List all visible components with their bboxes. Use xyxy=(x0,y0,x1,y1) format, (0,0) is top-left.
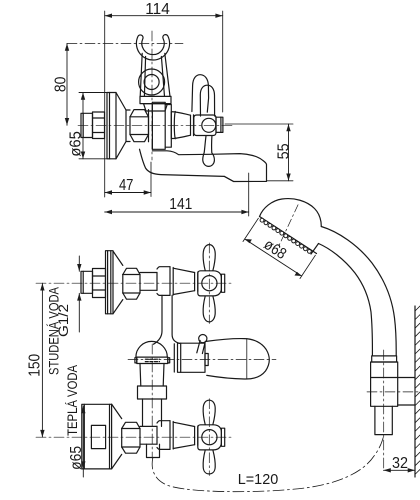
mixer dome xyxy=(136,341,167,357)
escutcheon disc (front lower) xyxy=(82,404,112,469)
bonnet ring (top view) xyxy=(191,115,194,136)
svg-text:TEPLÁ VODA: TEPLÁ VODA xyxy=(65,365,80,436)
head centerline xyxy=(278,202,298,250)
spout egg end seam xyxy=(246,339,248,379)
hex nut (top view) xyxy=(130,110,149,142)
handle upper blade A (top view) xyxy=(192,75,209,113)
dim 141 xyxy=(105,173,249,216)
handle down arm (front upper) xyxy=(203,296,215,322)
hose collar at bracket xyxy=(372,356,397,362)
shower grip and hose outer edge xyxy=(321,227,396,356)
dim o68 ext lines xyxy=(243,218,315,278)
right extension line of 114 xyxy=(222,11,224,112)
escutcheon cone (front upper) xyxy=(113,251,123,314)
valve body (top view) xyxy=(149,102,172,149)
dim 47 xyxy=(105,162,151,197)
cradle mount xyxy=(144,104,168,111)
shower head / grip notch xyxy=(311,244,319,255)
cradle vertical centerline xyxy=(151,31,153,160)
union nut (top view) xyxy=(93,112,105,139)
mixer vertical centerline xyxy=(151,344,153,458)
flange plate xyxy=(135,357,170,363)
bracket pipe xyxy=(375,406,392,434)
spout axis centerline xyxy=(128,358,276,360)
dim 55 xyxy=(225,124,293,181)
svg-text:G1/2: G1/2 xyxy=(56,304,71,337)
dim o65 (top view) line xyxy=(79,93,110,159)
bracket centerline xyxy=(383,350,385,470)
wall line (front view) xyxy=(414,306,416,477)
pipe (front lower) xyxy=(140,426,157,444)
handle vertical centerline (front lower) xyxy=(208,399,210,476)
svg-text:L=120: L=120 xyxy=(238,471,279,488)
mixer cup xyxy=(140,364,164,387)
handle lower arm (top view) xyxy=(203,136,215,166)
svg-text:32: 32 xyxy=(392,455,408,472)
svg-text:150: 150 xyxy=(27,353,44,376)
svg-text:ø65: ø65 xyxy=(68,446,85,470)
spout egg (front view) xyxy=(206,339,269,379)
inlet stub (top view) xyxy=(81,113,93,137)
shower grip and hose inner edge xyxy=(319,244,373,356)
svg-text:ø68: ø68 xyxy=(261,236,290,263)
shower head spray nozzles xyxy=(260,218,311,253)
svg-text:141: 141 xyxy=(169,196,192,213)
horizontal centerline (top view axis) xyxy=(78,124,232,126)
dim o68 line xyxy=(245,239,302,276)
handle up arm (front lower) xyxy=(203,400,215,424)
wall bracket block xyxy=(371,362,415,406)
pipe (front upper) xyxy=(140,273,157,291)
hex nut (front upper) xyxy=(123,268,140,299)
dim 80 line xyxy=(65,44,69,126)
valve body (front lower) xyxy=(157,421,173,450)
inlet stub (front upper) xyxy=(81,271,93,293)
union nut (front upper) xyxy=(93,269,106,298)
cradle base plate xyxy=(140,96,171,103)
valve body (front upper) xyxy=(157,267,173,296)
svg-text:55: 55 xyxy=(275,143,292,159)
svg-text:114: 114 xyxy=(145,1,170,18)
diverter lever xyxy=(197,335,207,354)
handle hub (front lower) xyxy=(198,425,222,450)
shower head face xyxy=(260,217,317,254)
bonnet ring (front upper) xyxy=(195,272,198,291)
spout (top view) xyxy=(140,149,267,181)
handle hub (top view) xyxy=(194,115,216,136)
lower branch centerline xyxy=(36,436,232,438)
dim o65 (front view) line xyxy=(81,406,85,477)
bonnet cone (front lower) xyxy=(173,422,194,448)
handle hub (front upper) xyxy=(198,271,222,296)
handle cap (top view) xyxy=(216,117,223,132)
svg-text:ø65: ø65 xyxy=(68,131,85,157)
dim 114 line xyxy=(105,14,223,18)
shower cradle fork xyxy=(136,35,170,97)
wall hatching xyxy=(415,306,420,474)
bracket horizontal centerline xyxy=(367,391,419,393)
hose length centerline L=120 xyxy=(152,438,383,492)
handle vertical centerline (front upper) xyxy=(208,243,210,324)
escutcheon (top view) xyxy=(107,93,130,159)
svg-text:47: 47 xyxy=(119,177,134,194)
mixer collar xyxy=(138,386,167,399)
wall plane / left extension line xyxy=(104,11,106,197)
escutcheon cone (front lower) xyxy=(112,404,122,469)
upper branch centerline xyxy=(36,282,232,284)
diverter box xyxy=(174,343,208,372)
svg-text:80: 80 xyxy=(52,76,69,92)
dim 150 line xyxy=(40,283,44,437)
handle cap (front lower) xyxy=(221,428,224,446)
cradle ring boss xyxy=(139,69,165,95)
hose stub below faucet xyxy=(147,444,160,457)
bonnet cone (top view) xyxy=(171,112,190,139)
handle cap (front upper) xyxy=(221,274,224,292)
hex nut (front lower) xyxy=(122,422,140,453)
cradle horizontal centerline xyxy=(67,43,183,45)
handle up arm (front upper) xyxy=(203,245,215,271)
bonnet ring (front lower) xyxy=(195,426,198,445)
bonnet cone (front upper) xyxy=(173,268,194,294)
handle upper blade B (top view) xyxy=(200,85,214,116)
shower head dome xyxy=(260,199,322,227)
spout underside step xyxy=(224,176,233,181)
dim G1/2 arrows xyxy=(77,256,81,332)
escutcheon plate (front upper) xyxy=(106,251,114,314)
handle down arm (front lower) xyxy=(203,450,215,474)
dim 32 xyxy=(384,468,416,472)
body drop tube xyxy=(154,295,180,344)
down pipe xyxy=(143,399,162,426)
